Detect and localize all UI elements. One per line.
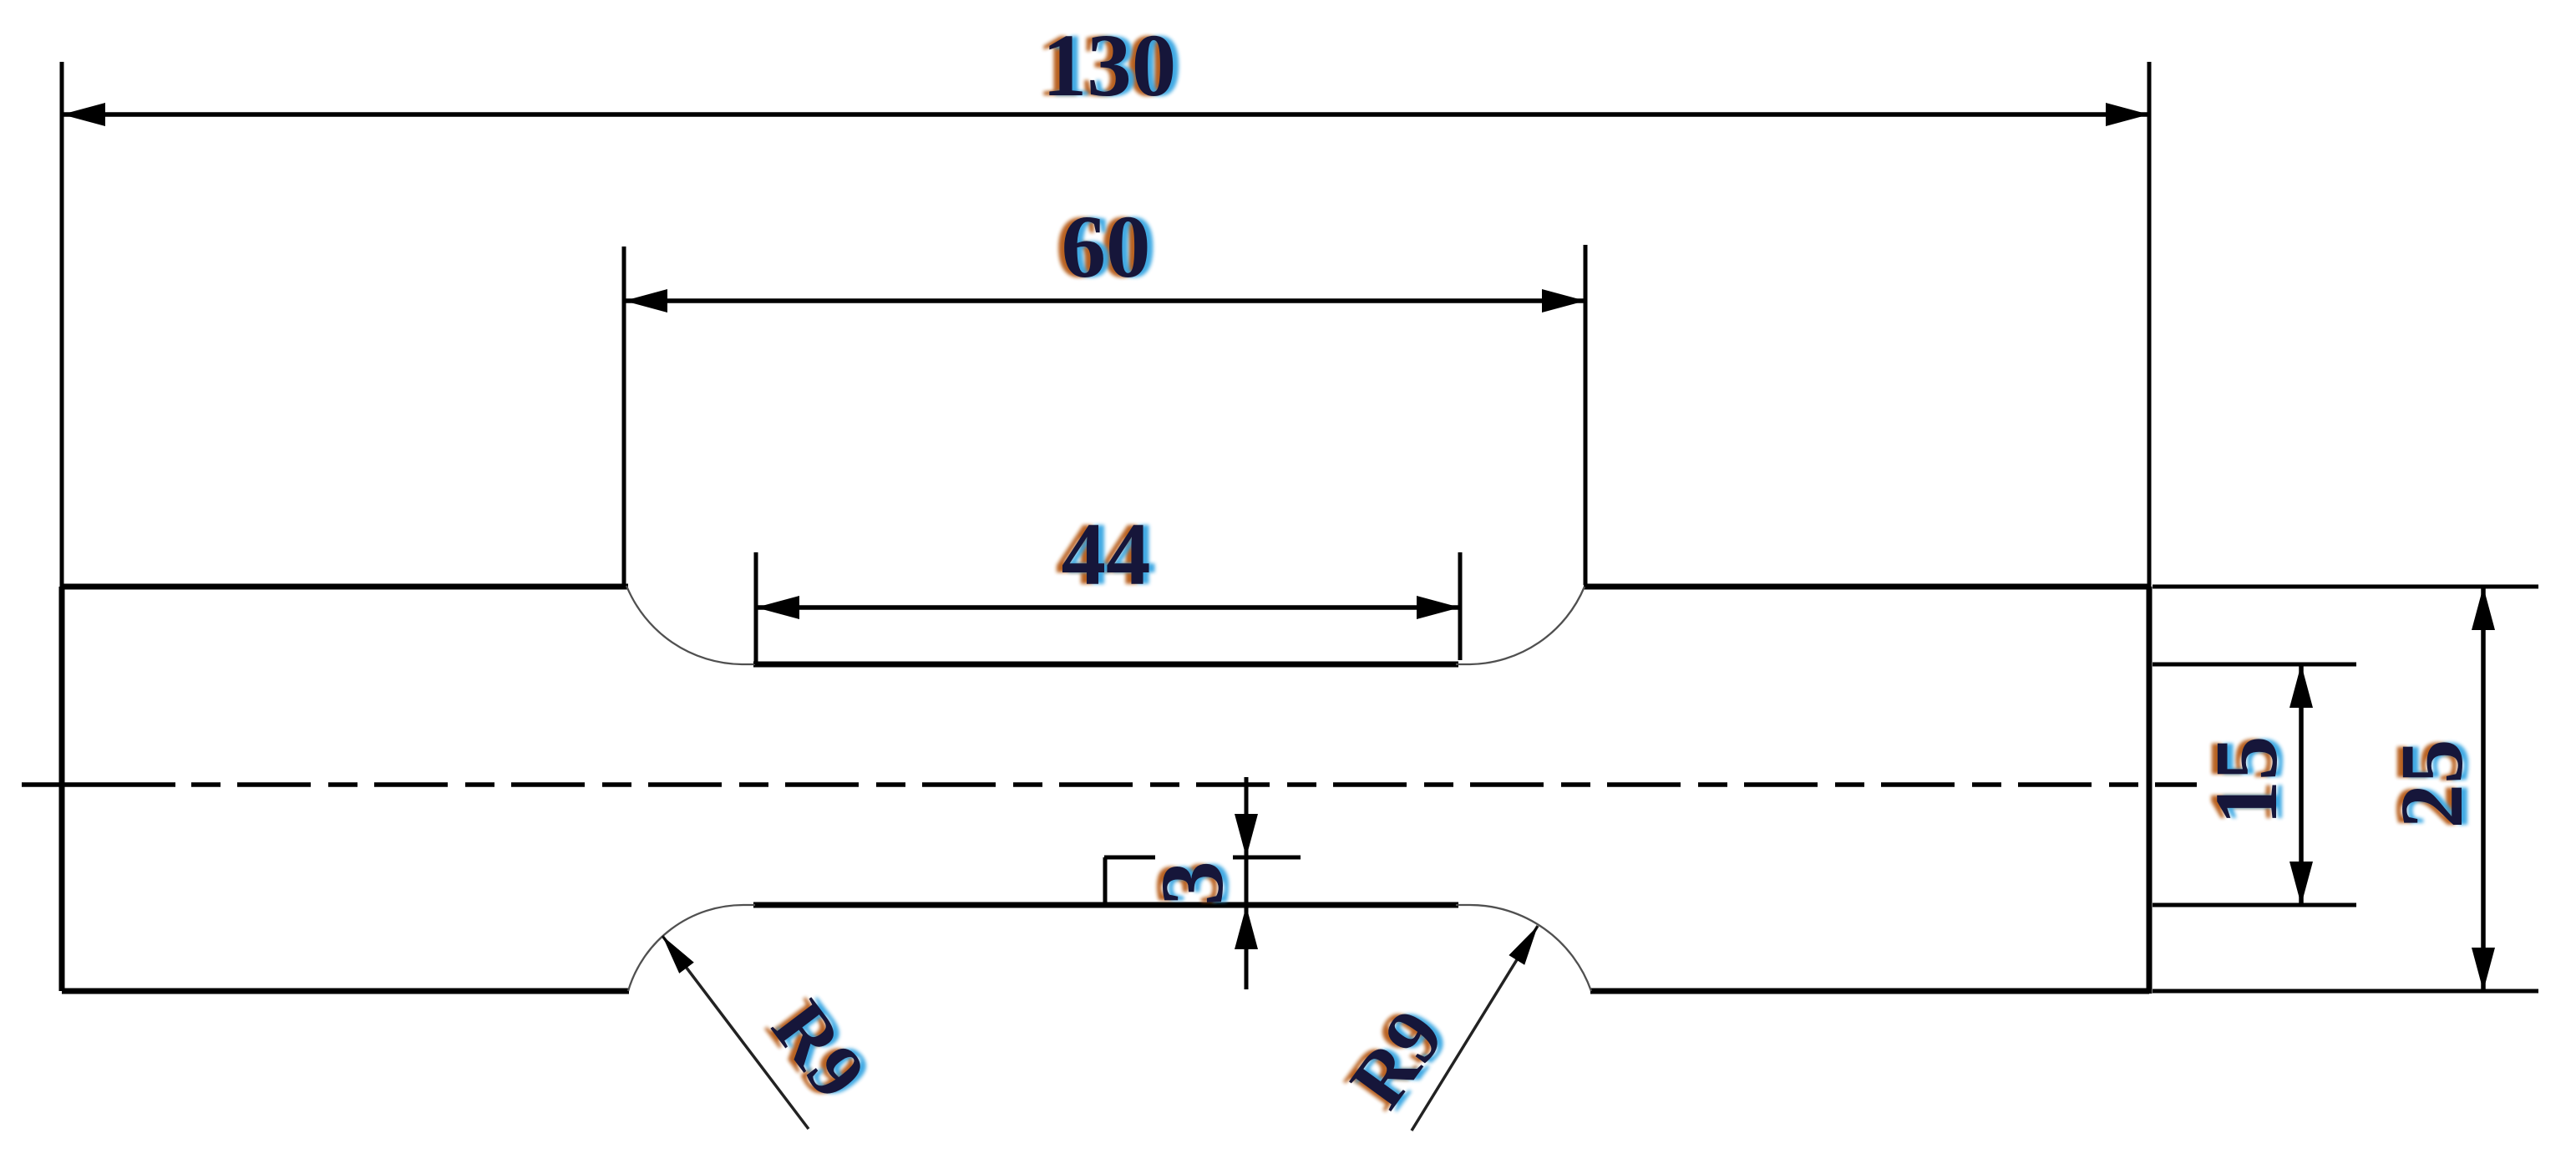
arrow 44 right bbox=[1417, 596, 1460, 619]
leader arrow left R9 bbox=[662, 936, 694, 973]
extension line left (60) bbox=[622, 247, 626, 585]
label 3 (rotated) bbox=[1138, 861, 1248, 906]
specimen outline: bottom grip edge right bbox=[1590, 989, 2149, 994]
fillet arc bottom-left R9 bbox=[628, 905, 755, 991]
dimension line 44 bbox=[756, 605, 1460, 610]
dimension 3: step vertical segment bbox=[1103, 857, 1108, 905]
svg-text:44: 44 bbox=[1062, 506, 1151, 604]
extension segment gauge-top right (15) bbox=[2153, 663, 2356, 667]
dimension 3: upper reference segment left bbox=[1104, 856, 1155, 860]
label 130 bbox=[1037, 17, 1183, 115]
specimen outline: top grip edge left bbox=[62, 584, 628, 590]
dimension 3: upper reference segment right bbox=[1233, 856, 1301, 860]
label 15 (rotated) bbox=[2192, 736, 2302, 826]
fillet arc top-left R9 bbox=[626, 586, 755, 664]
svg-text:60: 60 bbox=[1062, 198, 1151, 297]
svg-text:15: 15 bbox=[2198, 736, 2296, 826]
specimen outline: gauge top edge bbox=[753, 662, 1458, 668]
extension line right (130) bbox=[2148, 62, 2152, 587]
svg-text:130: 130 bbox=[1042, 17, 1177, 115]
arrow 25 top bbox=[2472, 587, 2495, 630]
extension line right (44) bbox=[1458, 552, 1463, 660]
svg-text:25: 25 bbox=[2383, 740, 2482, 829]
extension segment gauge-bottom right (15) bbox=[2153, 903, 2356, 907]
specimen outline: left end edge bbox=[59, 587, 65, 991]
label R9 left (rotated) bbox=[749, 985, 888, 1114]
fillet arc bottom-right R9 bbox=[1456, 905, 1591, 991]
arrow 3 upper (points down) bbox=[1235, 814, 1258, 857]
arrow 3 lower (points up) bbox=[1235, 906, 1258, 949]
label 25 (rotated) bbox=[2377, 740, 2487, 829]
dimension line 15 bbox=[2299, 664, 2304, 905]
leader arrow right R9 bbox=[1509, 926, 1538, 965]
extension segment grip-bottom right (25) bbox=[2153, 989, 2538, 994]
arrow 15 top bbox=[2289, 664, 2313, 708]
svg-text:3: 3 bbox=[1143, 861, 1242, 906]
arrow 60 right bbox=[1542, 289, 1585, 313]
arrow 130 left bbox=[62, 103, 105, 126]
extension line right (60) bbox=[1584, 245, 1588, 585]
label 60 bbox=[1056, 198, 1157, 297]
dimension line 60 bbox=[624, 298, 1585, 303]
leader line right R9 bbox=[1412, 926, 1538, 1131]
extension segment grip-top right (25) bbox=[2153, 585, 2538, 589]
dimension line 25 bbox=[2481, 587, 2486, 991]
arrow 15 bottom bbox=[2289, 862, 2313, 905]
specimen outline: bottom grip edge left bbox=[62, 989, 629, 994]
fillet arc top-right R9 bbox=[1456, 587, 1585, 664]
arrow 25 bottom bbox=[2472, 948, 2495, 991]
specimen outline: gauge bottom edge bbox=[753, 902, 1458, 908]
dimension 3: vertical line bbox=[1245, 777, 1249, 989]
arrow 60 left bbox=[624, 289, 667, 313]
label R9 right (rotated) bbox=[1328, 994, 1467, 1123]
leader line left R9 bbox=[662, 936, 809, 1129]
arrow 130 right bbox=[2106, 103, 2149, 126]
label 44 bbox=[1056, 506, 1157, 604]
dimension line 130 bbox=[62, 112, 2149, 117]
specimen outline: top grip edge right bbox=[1584, 584, 2149, 590]
centerline (dash-dot axis) bbox=[22, 782, 175, 787]
arrow 44 left bbox=[756, 596, 799, 619]
specimen outline: right end edge bbox=[2147, 587, 2153, 994]
extension line left (44) bbox=[754, 552, 758, 664]
extension line left (130) bbox=[60, 62, 64, 587]
